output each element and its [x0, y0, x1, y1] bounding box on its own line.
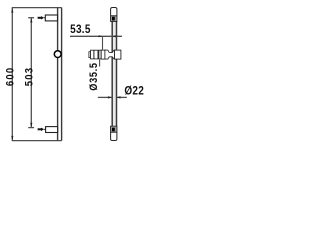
- top bracket screw arrowhead: [41, 16, 44, 19]
- rail tube front view right line: [61, 8, 63, 141]
- bottom bracket screw shaft: [38, 128, 42, 130]
- slider clamp: [115, 50, 121, 59]
- rail tube interior tint: [113, 21, 116, 126]
- rail tube right line: [116, 21, 118, 126]
- knob ridge line: [93, 50, 95, 59]
- slider knob circle (front view): [54, 51, 61, 58]
- top bracket body: [45, 15, 57, 21]
- top cap set-screw square: [112, 17, 115, 21]
- 53.5 dimension line: [70, 35, 122, 37]
- Ø22 dimension right segment: [116, 96, 127, 98]
- svg-text:503: 503: [24, 67, 36, 86]
- svg-text:Ø35.5: Ø35.5: [88, 62, 100, 90]
- bottom end cap: [111, 126, 117, 140]
- Ø22 right arrow (points left, tip at tube right line): [116, 96, 120, 98]
- 53.5 extension line down to slider: [102, 36, 104, 50]
- Ø22 dimension left segment: [98, 96, 112, 98]
- 600 dimension line: [11, 8, 13, 141]
- 600 top arrow: [11, 8, 13, 13]
- slider collar section: [101, 50, 105, 59]
- slider body with groove waist: [105, 50, 115, 59]
- bottom bracket screw tip line: [44, 128, 46, 130]
- svg-text:Ø22: Ø22: [124, 85, 144, 98]
- bottom cap set-screw gray recess: [111, 127, 116, 132]
- 503 bottom extension dash: [28, 127, 34, 129]
- 503 top arrow: [30, 18, 32, 23]
- 53.5 left arrow (points right, tip at extension line): [99, 35, 103, 37]
- knob dark band: [98, 50, 100, 58]
- bottom bracket body: [46, 127, 58, 133]
- top bracket screw tip line: [44, 17, 46, 19]
- rail tube front view left line: [57, 8, 59, 141]
- top cap separator line: [111, 15, 117, 17]
- slider knurled knob: [91, 50, 102, 59]
- 503 dimension line: [30, 18, 32, 128]
- 503 bottom arrow: [30, 123, 32, 128]
- 53.5 right arrow (points left, tip at tube left line): [112, 35, 116, 37]
- bottom extension line: [12, 140, 62, 142]
- rail tube left line: [111, 21, 113, 126]
- top end cap: [111, 8, 117, 22]
- Ø35.5 extension tick: [99, 60, 101, 67]
- slider knob end plate: [89, 52, 91, 58]
- top extension line: [12, 7, 62, 9]
- bottom cap separator line: [111, 131, 117, 133]
- Ø22 left arrow (points right, tip at tube left line): [108, 96, 112, 98]
- top bracket screw shaft: [38, 17, 42, 19]
- 503 top extension dash: [28, 17, 34, 19]
- bottom bracket screw arrowhead: [41, 128, 44, 131]
- 600 bottom arrow: [11, 136, 13, 141]
- svg-text:600: 600: [5, 67, 17, 86]
- svg-text:53.5: 53.5: [70, 23, 91, 36]
- top cap set-screw gray recess: [111, 16, 116, 21]
- bottom cap set-screw square: [112, 128, 115, 132]
